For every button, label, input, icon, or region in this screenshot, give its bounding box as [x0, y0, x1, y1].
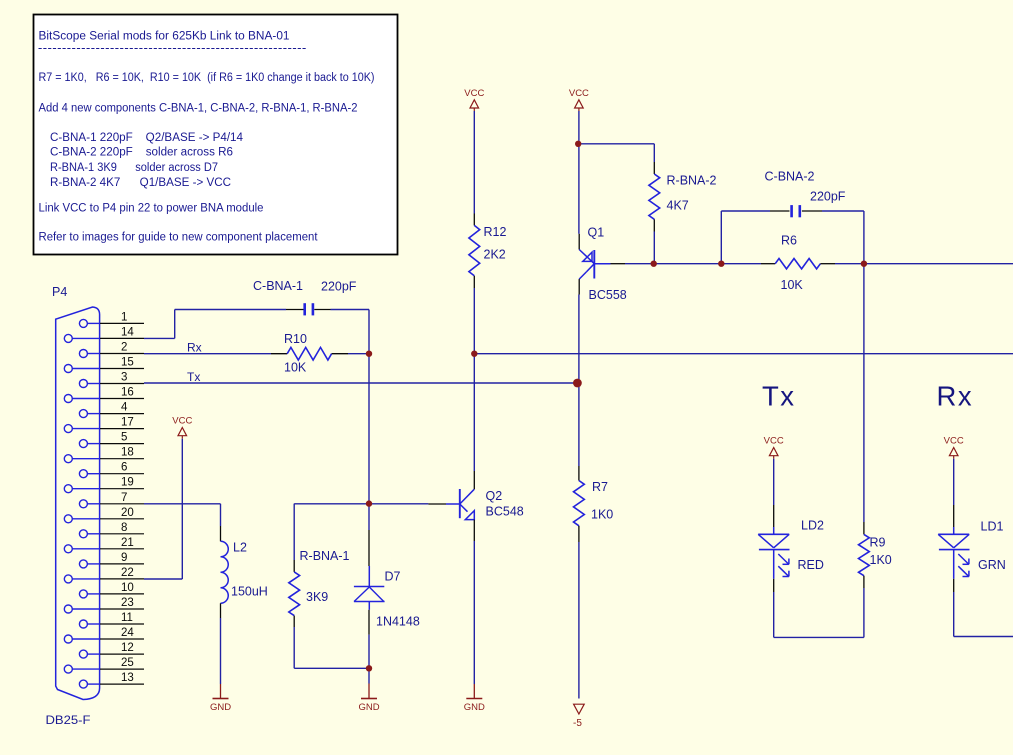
svg-text:GND: GND — [210, 702, 231, 713]
svg-text:4: 4 — [121, 402, 128, 414]
svg-text:1K0: 1K0 — [870, 553, 892, 567]
svg-text:6: 6 — [121, 462, 127, 474]
svg-text:C-BNA-1: C-BNA-1 — [253, 279, 303, 293]
svg-text:BC558: BC558 — [589, 288, 627, 302]
svg-text:8: 8 — [121, 522, 127, 534]
svg-text:RED: RED — [798, 558, 824, 572]
svg-text:10K: 10K — [781, 278, 804, 292]
svg-text:19: 19 — [121, 477, 134, 489]
svg-text:LD1: LD1 — [981, 520, 1004, 534]
svg-text:VCC: VCC — [569, 88, 589, 99]
svg-text:1K0: 1K0 — [591, 508, 613, 522]
svg-text:10: 10 — [121, 582, 134, 594]
svg-text:DB25-F: DB25-F — [46, 713, 91, 727]
svg-text:24: 24 — [121, 627, 134, 639]
svg-text:R12: R12 — [484, 225, 507, 239]
svg-text:Rx: Rx — [937, 381, 974, 412]
svg-text:220pF: 220pF — [321, 280, 357, 294]
svg-text:R-BNA-1: R-BNA-1 — [300, 549, 350, 563]
svg-text:R7: R7 — [592, 480, 608, 494]
svg-text:Refer to images for guide to n: Refer to images for guide to new compone… — [39, 232, 319, 244]
svg-text:LD2: LD2 — [801, 519, 824, 533]
svg-text:1: 1 — [121, 311, 127, 323]
svg-text:7: 7 — [121, 492, 127, 504]
svg-text:23: 23 — [121, 597, 134, 609]
svg-text:VCC: VCC — [172, 416, 192, 427]
svg-text:2K2: 2K2 — [484, 248, 506, 262]
svg-text:Q1: Q1 — [588, 226, 605, 240]
svg-text:21: 21 — [121, 537, 134, 549]
svg-text:10K: 10K — [284, 361, 307, 375]
svg-text:Tx: Tx — [762, 381, 796, 412]
svg-text:3: 3 — [121, 372, 127, 384]
svg-text:GND: GND — [464, 702, 485, 713]
svg-text:C-BNA-1 220pF Q2/BASE -> P4: C-BNA-1 220pF Q2/BASE -> P4/14 — [50, 132, 244, 144]
svg-text:R10: R10 — [284, 332, 307, 346]
svg-text:5: 5 — [121, 432, 127, 444]
svg-text:11: 11 — [121, 612, 133, 624]
svg-text:L2: L2 — [233, 541, 247, 555]
svg-text:VCC: VCC — [764, 436, 784, 447]
svg-text:Q2: Q2 — [486, 489, 503, 503]
svg-text:150uH: 150uH — [231, 585, 268, 599]
svg-text:C-BNA-2: C-BNA-2 — [765, 170, 815, 184]
svg-text:Tx: Tx — [187, 370, 200, 384]
svg-text:GND: GND — [358, 702, 379, 713]
svg-text:13: 13 — [121, 672, 134, 684]
svg-text:C-BNA-2 220pF solder across: C-BNA-2 220pF solder across R6 — [50, 147, 233, 159]
svg-text:12: 12 — [121, 642, 134, 654]
svg-text:17: 17 — [121, 417, 134, 429]
svg-text:Add 4 new components C-BNA-1,: Add 4 new components C-BNA-1, C-BNA-2, R… — [39, 103, 358, 115]
svg-text:R-BNA-2 4K7 Q1/BASE -> VC: R-BNA-2 4K7 Q1/BASE -> VCC — [50, 177, 231, 189]
svg-text:22: 22 — [121, 567, 134, 579]
svg-text:R9: R9 — [870, 536, 886, 550]
svg-text:1N4148: 1N4148 — [376, 615, 420, 629]
svg-text:15: 15 — [121, 357, 134, 369]
svg-text:Link VCC to P4 pin 22 to power: Link VCC to P4 pin 22 to power BNA modul… — [39, 203, 264, 215]
svg-text:9: 9 — [121, 552, 127, 564]
svg-text:20: 20 — [121, 507, 134, 519]
svg-text:R6: R6 — [781, 234, 797, 248]
svg-text:GRN: GRN — [978, 558, 1006, 572]
svg-text:2: 2 — [121, 342, 127, 354]
svg-text:VCC: VCC — [464, 88, 484, 99]
svg-text:BC548: BC548 — [486, 505, 524, 519]
svg-text:VCC: VCC — [944, 436, 964, 447]
svg-text:16: 16 — [121, 387, 134, 399]
svg-text:P4: P4 — [52, 285, 67, 299]
svg-text:4K7: 4K7 — [667, 199, 689, 213]
svg-text:D7: D7 — [385, 570, 401, 584]
svg-text:14: 14 — [121, 326, 134, 338]
svg-text:25: 25 — [121, 657, 134, 669]
svg-text:Rx: Rx — [187, 341, 202, 355]
svg-text:18: 18 — [121, 447, 134, 459]
svg-text:3K9: 3K9 — [306, 590, 328, 604]
svg-text:BitScope Serial mods for 625Kb: BitScope Serial mods for 625Kb Link to B… — [39, 31, 290, 43]
svg-text:R7 = 1K0, R6 = 10K, R10 = 1: R7 = 1K0, R6 = 10K, R10 = 10K (if R6 = 1… — [39, 72, 375, 84]
svg-text:-5: -5 — [573, 718, 582, 729]
svg-text:R-BNA-1 3K9 solder across: R-BNA-1 3K9 solder across D7 — [50, 162, 218, 174]
svg-text:220pF: 220pF — [810, 190, 846, 204]
svg-text:R-BNA-2: R-BNA-2 — [667, 174, 717, 188]
